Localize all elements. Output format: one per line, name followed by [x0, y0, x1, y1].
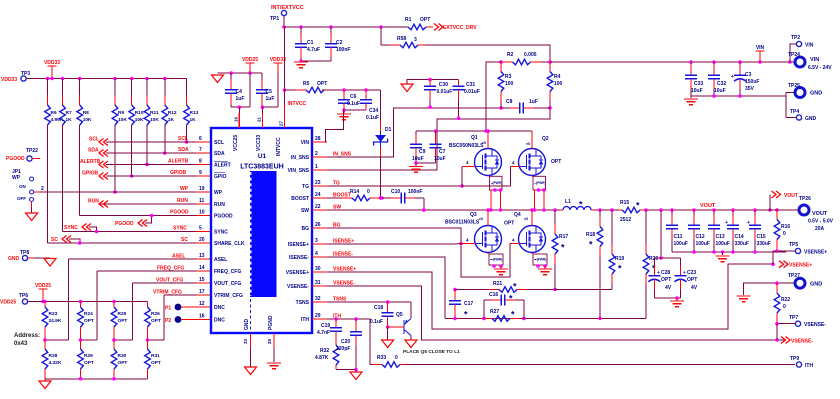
svg-text:ISENSE-: ISENSE-: [289, 255, 309, 261]
net SYNC row: [63, 224, 212, 234]
svg-text:27: 27: [279, 120, 284, 126]
resistor R7 1K: [60, 79, 72, 126]
offpage EXTVCC_DRV: [434, 24, 477, 32]
ground C1 C2: [294, 62, 308, 68]
svg-text:SDA: SDA: [214, 151, 225, 157]
svg-text:OPT: OPT: [118, 318, 128, 324]
svg-text:R31: R31: [151, 353, 160, 359]
svg-text:R29: R29: [84, 353, 93, 359]
wire address bank bottom rail: [45, 377, 148, 381]
svg-text:C11: C11: [674, 234, 683, 240]
svg-text:Q1: Q1: [471, 135, 478, 141]
svg-text:OPT: OPT: [84, 360, 94, 366]
svg-text:VOUT: VOUT: [784, 193, 798, 199]
wire TP1 down to R5 row: [283, 27, 287, 92]
net VSENSE- wire: [327, 286, 786, 342]
svg-text:C18: C18: [374, 305, 383, 311]
svg-text:R16: R16: [781, 224, 790, 230]
U1 exposed pad: [250, 171, 277, 297]
svg-text:RUN: RUN: [214, 202, 225, 208]
svg-text:13: 13: [199, 253, 205, 259]
svg-text:SYNC: SYNC: [64, 225, 78, 231]
svg-text:0: 0: [783, 304, 786, 310]
svg-text:29: 29: [315, 313, 321, 319]
label Address 0x43: [14, 333, 40, 347]
svg-text:VDD33: VDD33: [44, 60, 60, 66]
svg-text:0.005: 0.005: [524, 52, 537, 58]
net ASEL row: [68, 253, 211, 260]
svg-text:WP: WP: [12, 175, 21, 181]
svg-text:VDD33: VDD33: [270, 57, 286, 63]
resistor R58 3: [381, 36, 425, 48]
svg-text:R9: R9: [118, 110, 124, 116]
capacitor C4 1uF: [225, 73, 244, 107]
test point TP4: [790, 109, 817, 122]
svg-text:22: 22: [315, 204, 321, 210]
ground TP27 row: [737, 296, 751, 302]
svg-text:SW: SW: [301, 208, 309, 214]
capacitor C33 10uF: [685, 62, 703, 96]
svg-text:10K: 10K: [150, 117, 159, 123]
wire R7 to net row: [62, 125, 64, 232]
svg-text:ISENSE+: ISENSE+: [288, 242, 309, 248]
svg-text:9: 9: [199, 170, 202, 176]
net VSENSE+ to TP5: [773, 249, 795, 264]
svg-text:4.7uF: 4.7uF: [307, 47, 320, 53]
wire top rail INT/EXTVCC: [284, 25, 408, 29]
svg-text:0.01uF: 0.01uF: [437, 89, 453, 95]
wire R21 row to R19: [555, 289, 612, 291]
wire Q3 drain: [487, 210, 489, 226]
svg-text:16: 16: [199, 314, 205, 320]
net INTVCC to pin 27: [285, 90, 307, 128]
svg-text:C6: C6: [350, 94, 357, 100]
wire C30 C31 gnd rail: [407, 78, 459, 84]
svg-text:R14: R14: [350, 189, 359, 195]
svg-text:VDD25: VDD25: [35, 283, 51, 289]
wire VIN rail: [550, 60, 795, 64]
svg-text:R22: R22: [781, 297, 790, 303]
net SC row: [48, 236, 212, 245]
test point TP5: [789, 242, 827, 256]
svg-text:0: 0: [783, 231, 786, 237]
U1 right pin stubs: [312, 136, 356, 320]
capacitor C31 0.01uF: [453, 80, 480, 121]
svg-text:(PWR): (PWR): [536, 181, 546, 185]
svg-text:BOOST: BOOST: [291, 196, 309, 202]
svg-text:SCL: SCL: [178, 136, 188, 142]
svg-text:L1: L1: [565, 199, 571, 205]
svg-text:OPT: OPT: [551, 159, 561, 165]
net VOUT rail: [644, 208, 795, 212]
capacitor C18 0.1uF: [370, 302, 394, 329]
net TG wire: [327, 167, 520, 188]
svg-text:WP: WP: [214, 190, 223, 196]
ground C28 C23: [670, 296, 684, 306]
resistor R2 0.005: [499, 52, 552, 65]
svg-text:VSENSE+: VSENSE+: [286, 270, 309, 276]
U1 exposed pad dashed connection: [250, 299, 252, 333]
U1 left pin names: [214, 140, 245, 324]
label Q1 gate pin 4: [466, 160, 469, 165]
capacitor C16 *: [484, 292, 524, 319]
svg-text:Q4: Q4: [514, 212, 521, 218]
resistor R10 10K: [129, 79, 144, 126]
wire R6 to net row: [47, 125, 49, 243]
svg-text:R13: R13: [190, 110, 199, 116]
ground C18: [382, 327, 394, 348]
svg-text:35V: 35V: [745, 86, 755, 92]
svg-text:FREQ_CFG: FREQ_CFG: [157, 266, 184, 272]
svg-text:VIN: VIN: [810, 57, 819, 63]
svg-text:TP7: TP7: [789, 315, 798, 321]
resistor R3 100: [498, 62, 513, 108]
transistor Q5: [388, 302, 411, 336]
wire R23 mid junction to config column: [43, 259, 68, 342]
test point TP6: [0, 293, 28, 306]
net VTRIM_CFG row: [153, 289, 211, 296]
U1 top pin stubs: [233, 113, 283, 128]
svg-text:1uF: 1uF: [529, 99, 538, 105]
capacitor C6 0.1uF: [338, 90, 360, 110]
net VOUT_CFG row: [133, 277, 212, 284]
svg-text:U1: U1: [258, 153, 267, 160]
wire GND pin down: [250, 348, 252, 367]
Q2 source package pads: [532, 176, 546, 211]
power symbol VDD25: [242, 57, 258, 73]
svg-text:R24: R24: [84, 311, 93, 317]
svg-text:v5: v5: [526, 142, 530, 146]
resistor R28 4.32K: [42, 340, 62, 379]
capacitor C32 10uF: [708, 62, 726, 96]
svg-text:PGOOD: PGOOD: [6, 156, 25, 162]
wire C34 to C6 bottom: [342, 108, 366, 112]
svg-text:BSC050N03LS: BSC050N03LS: [449, 143, 484, 149]
net ISENSE+ wire: [327, 243, 461, 246]
svg-text:32: 32: [315, 296, 321, 302]
svg-text:TP26: TP26: [799, 196, 811, 202]
ground C9 C7: [409, 163, 423, 172]
svg-text:C19: C19: [321, 323, 330, 329]
svg-text:0.01uF: 0.01uF: [464, 89, 480, 95]
ground below JP1: [26, 213, 38, 221]
svg-text:SHARE_CLK: SHARE_CLK: [214, 241, 245, 247]
resistor R19 *: [609, 210, 624, 290]
svg-text:20: 20: [199, 237, 205, 243]
wire output caps gnd rail: [672, 250, 786, 254]
svg-text:VDD25: VDD25: [242, 57, 258, 63]
svg-text:OPT: OPT: [661, 277, 671, 283]
svg-text:ALERT: ALERT: [214, 163, 231, 169]
svg-text:R7: R7: [66, 110, 72, 116]
transistor Q4 OPT: [504, 212, 546, 253]
svg-text:v5: v5: [482, 141, 486, 145]
wire C10 to SW: [422, 198, 426, 212]
svg-text:8: 8: [199, 159, 202, 165]
svg-text:1uF: 1uF: [266, 96, 275, 102]
svg-text:23: 23: [315, 180, 321, 186]
resistor R27 *: [484, 309, 524, 321]
svg-text:VTRIM_CFG: VTRIM_CFG: [153, 290, 182, 296]
wire VDD25 rail: [28, 300, 148, 304]
resistor R6 4.99K: [45, 79, 64, 126]
svg-text:4: 4: [315, 251, 318, 257]
svg-text:25: 25: [267, 338, 272, 344]
svg-text:10: 10: [199, 210, 205, 216]
capacitor C34 0.1uF: [360, 90, 379, 121]
resistor R31 OPT: [145, 340, 161, 379]
svg-text:ALERTB: ALERTB: [80, 159, 101, 165]
svg-text:VIN: VIN: [805, 43, 814, 49]
wire R26 mid junction to config column: [146, 295, 164, 342]
svg-text:SYNC: SYNC: [214, 230, 228, 236]
resistor R24 OPT: [78, 302, 94, 341]
svg-text:OPT: OPT: [151, 318, 161, 324]
wire BOOST to C10: [327, 196, 384, 200]
svg-text:TP9: TP9: [790, 356, 799, 362]
svg-text:C28: C28: [661, 270, 670, 276]
wire Q1 drain: [487, 131, 489, 149]
svg-text:31: 31: [315, 280, 321, 286]
svg-text:VSENSE-: VSENSE-: [791, 339, 813, 345]
svg-text:0: 0: [395, 355, 398, 361]
wire VDD caps top rail: [218, 71, 263, 75]
svg-text:Q5: Q5: [396, 312, 403, 318]
resistor R25 OPT: [111, 302, 127, 341]
wire R58 column: [380, 27, 382, 45]
capacitor C28 OPT 4V: [648, 258, 671, 298]
svg-text:ITH: ITH: [301, 317, 309, 323]
svg-text:VDD25: VDD25: [0, 300, 16, 306]
svg-text:7: 7: [199, 147, 202, 153]
svg-text:PLACE Q5 CLOSE TO L1: PLACE Q5 CLOSE TO L1: [403, 349, 460, 355]
svg-text:D1: D1: [385, 127, 392, 133]
test point TP1 INT/EXTVCC: [270, 5, 304, 22]
pad P2: [165, 314, 211, 325]
svg-text:R4: R4: [554, 74, 561, 80]
ground Q3 source: [494, 266, 508, 275]
svg-text:C33: C33: [694, 81, 703, 87]
svg-text:ITH: ITH: [805, 363, 813, 369]
capacitor C9 10uF: [410, 131, 426, 163]
svg-text:4V: 4V: [691, 285, 698, 291]
svg-text:TP2: TP2: [791, 35, 800, 41]
svg-text:10uF: 10uF: [412, 156, 424, 162]
wire TP1 to rail: [282, 15, 286, 28]
svg-text:R1: R1: [405, 17, 412, 23]
svg-text:4V: 4V: [665, 285, 672, 291]
svg-text:1K: 1K: [168, 117, 175, 123]
power symbol VDD25 left: [35, 283, 51, 303]
svg-text:R5: R5: [303, 81, 310, 87]
net GPIOB row: [82, 170, 211, 180]
svg-text:R30: R30: [118, 353, 127, 359]
svg-text:R17: R17: [559, 234, 568, 240]
wire TP8 to ground: [28, 257, 50, 259]
svg-text:26: 26: [315, 222, 321, 228]
svg-text:Address:: Address:: [14, 333, 40, 339]
capacitor box C28 C23: [654, 210, 680, 298]
svg-text:C7: C7: [439, 149, 446, 155]
svg-text:C15: C15: [757, 234, 766, 240]
svg-text:3: 3: [414, 37, 417, 43]
svg-text:VIN: VIN: [301, 140, 310, 146]
svg-text:330uF: 330uF: [757, 241, 771, 247]
resistor R16 0: [774, 210, 790, 251]
resistor R26 OPT: [145, 302, 161, 341]
test point TP25: [788, 83, 822, 98]
svg-text:v5: v5: [524, 217, 528, 221]
net SW rail to L1: [327, 208, 560, 212]
svg-text:10uF: 10uF: [691, 88, 703, 94]
svg-text:R33: R33: [377, 355, 386, 361]
svg-text:C9: C9: [419, 149, 426, 155]
jumper JP1 WP: [12, 169, 34, 213]
svg-text:C2: C2: [336, 40, 343, 46]
svg-text:R18: R18: [586, 232, 595, 238]
wire R24 mid junction to config column: [79, 271, 97, 342]
wire sense bottom row: [445, 317, 646, 321]
net PGOOD row: [80, 210, 211, 228]
offpage VSENSE-: [781, 337, 813, 345]
svg-text:GPIOB: GPIOB: [82, 171, 99, 177]
pad P1: [165, 301, 211, 312]
resistor R30 OPT: [111, 340, 127, 379]
svg-text:0.1uF: 0.1uF: [347, 101, 360, 107]
capacitor C15 330uF: [747, 210, 771, 252]
svg-text:C17: C17: [464, 301, 473, 307]
svg-text:R23: R23: [49, 311, 58, 317]
svg-text:R26: R26: [151, 311, 160, 317]
svg-text:v5: v5: [479, 217, 483, 221]
transistor Q2 OPT: [519, 136, 562, 176]
svg-text:OPT: OPT: [151, 360, 161, 366]
capacitor C12 100uF: [688, 210, 710, 252]
svg-text:14: 14: [199, 265, 205, 271]
transistor Q1 BSC050N03LS: [449, 135, 502, 176]
label Q4 gate pin 4: [512, 238, 515, 243]
capacitor C20 220pF: [336, 319, 362, 370]
svg-text:1: 1: [315, 164, 318, 170]
svg-text:2: 2: [315, 151, 318, 157]
test point TP7: [789, 315, 826, 328]
svg-text:VSENSE+: VSENSE+: [789, 263, 812, 269]
svg-text:R27: R27: [490, 309, 499, 315]
ground compensation: [350, 370, 362, 380]
svg-text:10uF: 10uF: [434, 156, 446, 162]
svg-text:R32: R32: [320, 348, 329, 354]
svg-text:P2: P2: [165, 318, 171, 324]
transistor Q3 BSC011N03LS: [445, 212, 502, 253]
svg-text:TP8: TP8: [20, 250, 29, 256]
svg-text:4.32K: 4.32K: [49, 360, 62, 366]
svg-text:R20: R20: [649, 256, 658, 262]
svg-text:RUN: RUN: [177, 198, 188, 204]
svg-text:FREQ_CFG: FREQ_CFG: [214, 269, 241, 275]
svg-text:(PWR): (PWR): [493, 258, 503, 262]
wire R11 to net row: [145, 125, 149, 166]
svg-text:C12: C12: [696, 234, 705, 240]
svg-text:100nF: 100nF: [408, 189, 422, 195]
svg-text:*: *: [511, 310, 515, 320]
resistor R23 24.9K: [42, 302, 62, 341]
svg-text:0: 0: [367, 189, 370, 195]
resistor R13 1K: [184, 79, 199, 126]
resistor R32 4.87K: [315, 341, 339, 370]
net SDA row: [88, 147, 211, 157]
svg-text:SC: SC: [181, 237, 188, 243]
capacitor C7 10uF: [430, 131, 446, 163]
svg-text:TP22: TP22: [26, 148, 38, 154]
svg-text:1K: 1K: [190, 117, 197, 123]
svg-text:1K: 1K: [66, 117, 73, 123]
wire R2 left to drain rail: [486, 62, 501, 131]
svg-text:TP24: TP24: [788, 52, 800, 58]
wire R58 to R2: [425, 45, 550, 62]
ground TP8: [44, 259, 56, 267]
net TSNS wire: [327, 300, 411, 304]
power symbol VIN: [756, 45, 765, 62]
svg-text:R21: R21: [493, 281, 502, 287]
svg-text:IN_SNS: IN_SNS: [291, 155, 310, 161]
wire PGND pin down: [273, 348, 275, 362]
net GND row TP27: [744, 281, 795, 295]
capacitor C3 150uF 35V: [731, 62, 759, 96]
resistor R29 OPT: [78, 340, 94, 379]
wire R8 to net row: [79, 125, 81, 216]
svg-text:INTVCC: INTVCC: [276, 137, 282, 156]
net VSENSE+ wire: [327, 262, 775, 329]
svg-text:*: *: [509, 294, 513, 304]
svg-text:DNC: DNC: [214, 318, 225, 324]
svg-text:ALERTB: ALERTB: [168, 159, 189, 165]
capacitor C19 4.7nF: [317, 319, 342, 341]
net WP row: [34, 186, 211, 192]
ground VDD caps: [212, 75, 224, 83]
diode D1 schottky: [374, 90, 392, 156]
svg-text:VOUT: VOUT: [812, 211, 828, 217]
test point TP22: [6, 148, 40, 162]
svg-text:PGND: PGND: [268, 315, 274, 330]
svg-text:0.5V - 5.0V: 0.5V - 5.0V: [808, 219, 834, 225]
net RUN row: [88, 198, 211, 208]
resistor R14 0: [342, 189, 381, 201]
svg-text:GND: GND: [810, 282, 822, 288]
resistor R33 0: [370, 355, 406, 367]
svg-text:GND: GND: [810, 91, 822, 97]
svg-text:(PWR): (PWR): [537, 258, 547, 262]
svg-text:OPT: OPT: [118, 360, 128, 366]
wire R5 to C6 C34 D1: [322, 88, 381, 92]
capacitor C1 4.7uF: [295, 27, 320, 61]
capacitor C13 100uF: [708, 210, 730, 252]
wire VIN gnd rail: [691, 93, 796, 118]
svg-text:C32: C32: [717, 81, 726, 87]
svg-text:TP6: TP6: [19, 293, 28, 299]
ground output caps: [716, 252, 730, 262]
svg-text:INTVCC: INTVCC: [288, 101, 307, 107]
svg-text:100uF: 100uF: [696, 241, 710, 247]
svg-text:ON: ON: [19, 184, 26, 189]
svg-text:C1: C1: [307, 40, 314, 46]
svg-text:SYNC: SYNC: [173, 226, 187, 232]
svg-text:R19: R19: [615, 256, 624, 262]
svg-text:TP25: TP25: [788, 83, 800, 89]
svg-text:ASEL: ASEL: [172, 254, 185, 260]
svg-text:R6: R6: [51, 110, 57, 116]
svg-text:*: *: [618, 264, 622, 274]
net ITH long wire to TP9: [406, 364, 795, 366]
